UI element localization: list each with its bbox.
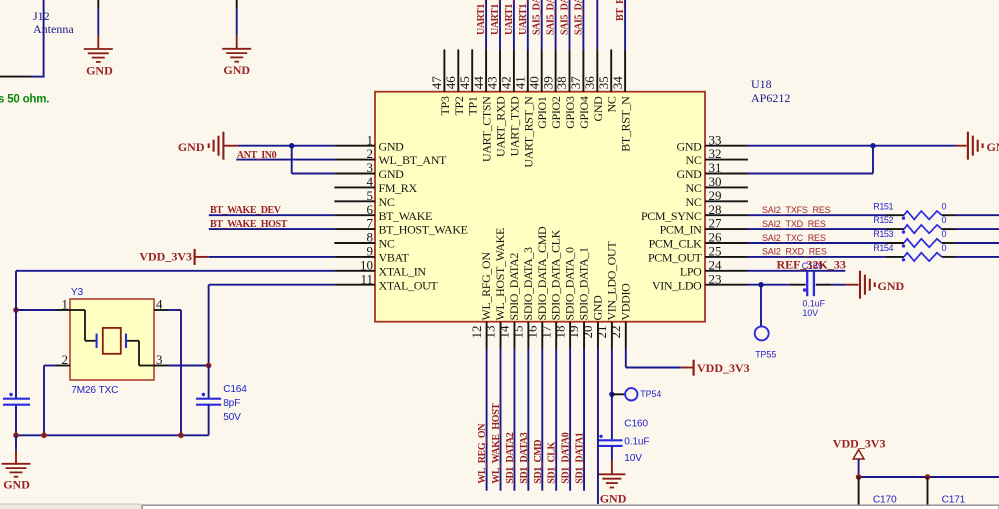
svg-text:SDIO_DATA_CLK: SDIO_DATA_CLK	[549, 229, 563, 320]
C164 polarity dot	[202, 393, 205, 396]
op-amp U18 AP6212 module body	[375, 92, 705, 322]
svg-text:7: 7	[367, 216, 374, 231]
svg-text:VDD_3V3: VDD_3V3	[139, 249, 192, 263]
resistor R153 lead right	[942, 242, 956, 244]
svg-text:GND: GND	[223, 63, 250, 77]
node junction pin 33	[870, 143, 875, 148]
pin 36 GND stub	[596, 49, 598, 92]
svg-text:UART1_RXD: UART1_RXD	[490, 0, 501, 35]
svg-text:SAI2_RXD_RES: SAI2_RXD_RES	[762, 247, 827, 257]
pin 12 WL_RFG_ON stub	[486, 322, 488, 349]
pin 46 TP2 stub	[457, 49, 459, 92]
svg-text:20: 20	[580, 326, 595, 339]
resistor R152 lead right	[942, 228, 956, 230]
svg-text:13: 13	[483, 326, 498, 339]
svg-text:50V: 50V	[223, 412, 241, 423]
svg-text:38: 38	[554, 76, 569, 89]
pin 29 NC stub	[705, 200, 748, 202]
svg-text:SAI2_TXD_RES: SAI2_TXD_RES	[762, 219, 826, 229]
ground GND top-left	[97, 35, 99, 49]
svg-text:21: 21	[594, 326, 609, 339]
bottom white panel	[142, 505, 999, 509]
wire pin 22 down	[625, 349, 627, 368]
svg-text:FM_RX: FM_RX	[379, 181, 418, 195]
svg-text:45: 45	[457, 76, 472, 89]
svg-text:GND: GND	[178, 140, 205, 154]
svg-text:GND: GND	[677, 139, 703, 153]
svg-text:R151: R151	[873, 201, 893, 211]
svg-text:GND: GND	[3, 477, 30, 491]
node junction pin1	[289, 143, 294, 148]
pin 33 GND stub	[705, 145, 748, 147]
svg-text:0: 0	[942, 201, 947, 211]
svg-text:LPO: LPO	[680, 264, 702, 278]
wire pin 20 GND	[597, 349, 599, 504]
svg-text:GND: GND	[878, 279, 905, 293]
wire R152 to edge	[956, 228, 999, 230]
pin 43 UART_RXD stub	[499, 49, 501, 92]
svg-text:PCM_CLK: PCM_CLK	[649, 237, 703, 251]
svg-text:25: 25	[709, 244, 722, 259]
svg-text:GND: GND	[677, 167, 703, 181]
svg-text:5: 5	[367, 188, 374, 203]
wire VDD rail	[859, 476, 999, 478]
power VDD_3V3 pin22 bar	[692, 360, 694, 376]
svg-text:VBAT: VBAT	[379, 251, 410, 265]
svg-text:6: 6	[367, 202, 374, 217]
resistor R153 lead left	[886, 242, 904, 244]
node VDD rail junction 1	[856, 474, 862, 480]
svg-text:VIN_LDO: VIN_LDO	[652, 278, 702, 292]
svg-text:SDIO_DATA_0: SDIO_DATA_0	[563, 247, 577, 321]
svg-text:UART1_CTS: UART1_CTS	[504, 0, 515, 35]
wire junction to pin 31	[872, 146, 874, 174]
svg-text:NC: NC	[379, 237, 395, 251]
svg-text:10: 10	[360, 257, 373, 272]
svg-text:10V: 10V	[803, 308, 819, 318]
svg-text:1: 1	[367, 132, 374, 147]
svg-text:SAI2_TXC_RES: SAI2_TXC_RES	[762, 233, 826, 243]
svg-text:0: 0	[942, 243, 947, 253]
svg-text:GPIO4: GPIO4	[577, 96, 591, 129]
svg-text:Y3: Y3	[71, 287, 84, 298]
wire pin 2 ANT_IN0	[236, 159, 334, 161]
svg-text:15: 15	[511, 326, 526, 339]
pin 37 GPIO4 stub	[582, 49, 584, 92]
svg-text:SD1_DATA0: SD1_DATA0	[561, 432, 572, 483]
resistor R151 lead right	[942, 214, 956, 216]
svg-text:SDIO_DATA_3: SDIO_DATA_3	[521, 247, 535, 321]
svg-text:C164: C164	[223, 384, 247, 395]
svg-text:37: 37	[568, 76, 583, 90]
svg-text:4: 4	[367, 174, 374, 189]
svg-text:s 50 ohm.: s 50 ohm.	[0, 94, 49, 106]
resistor R154 lead right	[942, 256, 956, 258]
wire rail to ground	[15, 435, 17, 451]
wire top pin 42 up	[513, 0, 515, 49]
capacitor C169	[806, 272, 808, 297]
svg-text:GND: GND	[86, 64, 113, 78]
pin 30 NC stub	[705, 186, 748, 188]
svg-text:SD1_DATA2: SD1_DATA2	[505, 432, 516, 483]
wire pin 22 right	[626, 367, 682, 369]
node junction TP55	[758, 282, 763, 287]
capacitor C163 (left, partial)	[3, 398, 30, 400]
wire pin 24 REF_32K_33	[748, 270, 845, 272]
svg-text:3: 3	[367, 160, 374, 175]
node rail junction 3	[178, 433, 184, 439]
wire top pin 43 up	[499, 0, 501, 49]
svg-text:0.1uF: 0.1uF	[624, 437, 649, 448]
power VDD_3V3 pin 9 bar	[194, 249, 196, 265]
svg-text:32: 32	[709, 146, 722, 161]
wire crystal pin 1	[16, 309, 56, 311]
wire pin 28 SAI2_TXFS_RES	[748, 214, 886, 216]
svg-text:8pF: 8pF	[223, 398, 240, 409]
capacitor C164	[208, 366, 210, 399]
svg-text:WL_RFG_ON: WL_RFG_ON	[479, 252, 493, 321]
pin 14 SDIO_DATA2 stub	[513, 322, 515, 349]
svg-text:BT_WAKE_HOST: BT_WAKE_HOST	[210, 219, 288, 230]
svg-text:GPIO1: GPIO1	[535, 96, 549, 129]
wire left vertical bottom	[15, 405, 17, 435]
pin 2 WL_BT_ANT stub	[334, 159, 375, 161]
pin 38 GPIO3 stub	[569, 49, 571, 92]
pin 41 UART_RST_N stub	[527, 49, 529, 92]
svg-text:BT_HOST_WAKE: BT_HOST_WAKE	[379, 223, 468, 237]
node rail junction 1	[13, 433, 19, 439]
pin 32 NC stub	[705, 159, 748, 161]
wire pin 18 SD1_DATA0	[569, 349, 571, 491]
svg-text:WL_WAKE_HOST: WL_WAKE_HOST	[491, 403, 502, 484]
svg-text:10V: 10V	[624, 453, 642, 464]
svg-text:44: 44	[471, 76, 486, 90]
resistor R151	[904, 211, 942, 219]
svg-text:SDIO_DATA_1: SDIO_DATA_1	[577, 247, 591, 321]
node rail junction 2	[41, 433, 47, 439]
wire crystal pin 3	[154, 365, 169, 367]
wire to GND top-left	[97, 0, 99, 8]
wire top pin 44 up	[485, 0, 487, 49]
pin 42 UART_TXD stub	[513, 49, 515, 92]
wire pin 7 BT_WAKE_HOST	[209, 228, 335, 230]
resistor R152 lead left	[886, 228, 904, 230]
svg-text:R152: R152	[873, 215, 893, 225]
svg-text:24: 24	[709, 257, 723, 272]
wire pin 6 BT_WAKE_DEV	[209, 214, 335, 216]
wire top pin 36 up	[596, 0, 598, 49]
svg-text:35: 35	[596, 76, 611, 89]
svg-text:R153: R153	[873, 229, 893, 239]
ground GND top-2	[236, 35, 238, 49]
svg-text:28: 28	[709, 202, 722, 217]
svg-text:29: 29	[709, 188, 722, 203]
svg-text:46: 46	[443, 76, 458, 90]
crystal symbol leads	[70, 309, 85, 311]
wire junction down	[291, 146, 293, 174]
svg-text:C160: C160	[624, 419, 648, 430]
svg-text:11: 11	[360, 271, 373, 286]
svg-text:39: 39	[540, 76, 555, 89]
test point TP55	[755, 326, 769, 340]
pin 6 BT_WAKE stub	[334, 214, 375, 216]
svg-text:BT_WAKE_DEV: BT_WAKE_DEV	[210, 205, 282, 216]
wire top pin 41 up	[527, 0, 529, 49]
wire capacitor C171 lead	[927, 477, 929, 509]
svg-text:GND: GND	[600, 491, 627, 505]
wire pin 16 SD1_CMD	[541, 349, 543, 491]
pin 39 GPIO2 stub	[555, 49, 557, 92]
svg-text:43: 43	[485, 76, 500, 89]
svg-text:GND: GND	[590, 295, 604, 321]
pin 1 GND stub	[334, 145, 375, 147]
pin 25 PCM_OUT stub	[705, 256, 748, 258]
svg-text:14: 14	[497, 325, 512, 339]
svg-text:WL_HOST_WAKE: WL_HOST_WAKE	[493, 228, 507, 320]
pin 4 FM_RX stub	[334, 186, 375, 188]
resistor R151 lead left	[886, 214, 904, 216]
node junction left vertical pin1	[13, 307, 19, 313]
wire top pin 38 up	[569, 0, 571, 49]
pin 7 BT_HOST_WAKE stub	[334, 228, 375, 230]
svg-text:19: 19	[566, 326, 581, 339]
node junction pin3 cap	[206, 363, 212, 369]
svg-text:7M26 TXC: 7M26 TXC	[71, 385, 118, 396]
svg-text:41: 41	[513, 76, 528, 89]
svg-text:UART_CTSN: UART_CTSN	[480, 96, 494, 162]
svg-text:BT_WAKE: BT_WAKE	[379, 209, 433, 223]
crystal element	[103, 328, 121, 354]
svg-text:SAI2_TXFS_RES: SAI2_TXFS_RES	[762, 205, 831, 215]
pin 18 SDIO_DATA_0 stub	[569, 322, 571, 349]
wire crystal pin 2	[56, 365, 70, 367]
pin 9 VBAT stub	[334, 256, 375, 258]
svg-text:SAI5_DAT0: SAI5_DAT0	[532, 0, 543, 35]
svg-text:REF_32K_33: REF_32K_33	[777, 258, 846, 272]
wire capacitor C170 lead	[858, 477, 860, 509]
pin 40 GPIO1 stub	[541, 49, 543, 92]
resistor R153	[904, 239, 942, 247]
svg-text:GND: GND	[591, 96, 605, 122]
svg-text:R154: R154	[873, 243, 893, 253]
svg-text:VDDIO: VDDIO	[618, 283, 632, 321]
svg-text:SDIO_DATA_CMD: SDIO_DATA_CMD	[535, 226, 549, 321]
svg-text:SD1_CMD: SD1_CMD	[533, 440, 544, 484]
svg-text:34: 34	[610, 76, 625, 90]
pin 27 PCM_IN stub	[705, 228, 748, 230]
node VDD rail junction 2	[925, 474, 931, 480]
R152 polarity dot	[902, 230, 905, 233]
pin 8 NC stub	[334, 242, 375, 244]
ground GND below C160	[598, 473, 625, 475]
R151 polarity dot	[902, 216, 905, 219]
svg-text:2: 2	[367, 146, 374, 161]
wire R151 to edge	[956, 214, 999, 216]
svg-text:XTAL_IN: XTAL_IN	[379, 264, 427, 278]
svg-text:J12: J12	[33, 9, 50, 23]
pin 22 VDDIO stub	[625, 322, 627, 349]
svg-text:C171: C171	[942, 495, 966, 506]
svg-text:BT_RST_N: BT_RST_N	[619, 96, 633, 152]
test point TP54	[625, 388, 637, 400]
node junction TP54	[609, 392, 614, 397]
ground GND at pin 1 (sideways)	[222, 132, 224, 160]
svg-text:C170: C170	[873, 495, 897, 506]
svg-text:SAI5_DAT3: SAI5_DAT3	[573, 0, 584, 35]
wire R153 to edge	[956, 242, 999, 244]
svg-text:UART_RST_N: UART_RST_N	[521, 96, 535, 168]
svg-text:NC: NC	[686, 153, 702, 167]
wire J12 to top	[31, 76, 44, 78]
svg-text:TP55: TP55	[755, 350, 776, 360]
svg-text:8: 8	[367, 230, 374, 245]
pin 5 NC stub	[334, 200, 375, 202]
svg-text:0.1uF: 0.1uF	[803, 298, 826, 308]
svg-text:AP6212: AP6212	[751, 91, 790, 105]
wire pin 14 SD1_DATA2	[513, 349, 515, 491]
power VDD_3V3 triangle	[853, 450, 864, 459]
pin 16 SDIO_DATA_CMD stub	[541, 322, 543, 349]
svg-text:NC: NC	[379, 195, 395, 209]
wire pin 13 WL_WAKE_HOST	[500, 349, 502, 491]
svg-text:42: 42	[499, 76, 514, 89]
pin 31 GND stub	[705, 173, 748, 175]
wire top pin 34 up	[624, 0, 626, 49]
svg-text:SD1_DATA1: SD1_DATA1	[575, 432, 586, 483]
svg-text:PCM_SYNC: PCM_SYNC	[641, 209, 702, 223]
crystal Y3 body	[70, 299, 154, 380]
pin 24 LPO stub	[705, 270, 748, 272]
svg-text:SDIO_DATA2: SDIO_DATA2	[507, 253, 521, 321]
ground GND at C169	[859, 271, 861, 299]
svg-text:UART_TXD: UART_TXD	[507, 96, 521, 156]
svg-text:VDD_3V3: VDD_3V3	[833, 437, 886, 451]
R153 polarity dot	[902, 244, 905, 247]
pin 13 WL_HOST_WAKE stub	[500, 322, 502, 349]
svg-text:UART1_RTS: UART1_RTS	[518, 0, 529, 35]
wire pin 27 SAI2_TXD_RES	[748, 228, 886, 230]
pin 28 PCM_SYNC stub	[705, 214, 748, 216]
svg-text:WL_REG_ON: WL_REG_ON	[477, 423, 488, 484]
wire pin 23 segment 3	[816, 284, 831, 286]
svg-text:0: 0	[942, 215, 947, 225]
svg-text:Antenna: Antenna	[33, 22, 74, 36]
pin 23 VIN_LDO stub	[705, 284, 748, 286]
svg-text:TP2: TP2	[452, 96, 466, 115]
wire C160 down	[611, 446, 613, 460]
svg-text:UART_RXD: UART_RXD	[494, 96, 508, 157]
pin 11 XTAL_OUT stub	[334, 284, 375, 286]
svg-text:23: 23	[709, 271, 722, 286]
svg-text:TP3: TP3	[438, 96, 452, 115]
svg-text:NC: NC	[605, 96, 619, 112]
svg-text:31: 31	[709, 160, 722, 175]
wire pin 33	[748, 145, 956, 147]
pin 47 TP3 stub	[443, 49, 445, 92]
svg-text:0: 0	[942, 229, 947, 239]
pin 21 VIN_LDO_OUT stub	[611, 322, 613, 349]
C163 polarity dot	[9, 393, 12, 396]
R154 polarity dot	[902, 258, 905, 261]
wire crystal pin 4	[154, 309, 169, 311]
wire top pin 39 up	[555, 0, 557, 49]
connector J12 wire stub	[0, 76, 31, 78]
svg-text:NC: NC	[686, 181, 702, 195]
pin 15 SDIO_DATA_3 stub	[527, 322, 529, 349]
resistor R154	[904, 253, 942, 261]
svg-text:GND: GND	[379, 139, 405, 153]
wire top pin 37 up	[582, 0, 584, 49]
wire pin 3	[292, 173, 335, 175]
pin 10 XTAL_IN stub	[334, 270, 375, 272]
resistor R152	[904, 225, 942, 233]
svg-text:GND: GND	[379, 167, 405, 181]
svg-text:NC: NC	[686, 195, 702, 209]
svg-text:ANT_IN0: ANT_IN0	[237, 150, 277, 161]
wire pin 10 XTAL_IN	[16, 270, 334, 272]
svg-text:WL_BT_ANT: WL_BT_ANT	[379, 153, 448, 167]
svg-text:BT_REG_ON: BT_REG_ON	[615, 0, 626, 21]
svg-text:PCM_IN: PCM_IN	[660, 223, 703, 237]
svg-text:40: 40	[526, 76, 541, 89]
ground GND right edge	[967, 132, 969, 160]
ground GND bottom-left	[15, 451, 17, 464]
svg-text:36: 36	[582, 76, 597, 90]
pin 3 GND stub	[334, 173, 375, 175]
pin 45 TP1 stub	[471, 49, 473, 92]
wire pin 19 SD1_DATA1	[583, 349, 585, 491]
svg-text:SD1_DATA3: SD1_DATA3	[519, 432, 530, 483]
bottom grey strip	[0, 504, 142, 509]
wire VDD triangle down	[858, 459, 860, 477]
svg-text:VDD_3V3: VDD_3V3	[697, 361, 750, 375]
wire pin 26 SAI2_TXC_RES	[748, 242, 886, 244]
svg-text:XTAL_OUT: XTAL_OUT	[379, 278, 439, 292]
svg-text:47: 47	[429, 76, 444, 90]
resistor R154 lead left	[886, 256, 904, 258]
svg-text:GPIO2: GPIO2	[549, 96, 563, 129]
wire R154 to edge	[956, 256, 999, 258]
svg-text:GND: GND	[987, 140, 999, 154]
svg-text:SAI5_DAT2: SAI5_DAT2	[560, 0, 571, 35]
svg-text:SAI5_DAT1: SAI5_DAT1	[546, 0, 557, 35]
wire ground rail	[16, 434, 209, 436]
wire pin 23 segment 2	[790, 284, 806, 286]
svg-text:30: 30	[709, 174, 722, 189]
wire top pin 40 up	[541, 0, 543, 49]
svg-text:9: 9	[367, 244, 374, 259]
pin 35 NC stub	[610, 49, 612, 92]
svg-text:16: 16	[524, 325, 539, 339]
svg-text:TP54: TP54	[640, 389, 661, 399]
svg-text:22: 22	[608, 326, 623, 339]
svg-text:TP1: TP1	[466, 96, 480, 115]
svg-text:VIN_LDO_OUT: VIN_LDO_OUT	[604, 241, 618, 321]
pin 20 GND stub	[597, 322, 599, 349]
pin 17 SDIO_DATA_CLK stub	[555, 322, 557, 349]
svg-text:17: 17	[538, 325, 553, 339]
wire VDD_3V3 to pin 9	[195, 256, 209, 258]
svg-text:33: 33	[709, 132, 722, 147]
pin 44 UART_CTSN stub	[485, 49, 487, 92]
svg-text:PCM_OUT: PCM_OUT	[648, 251, 703, 265]
svg-text:12: 12	[469, 326, 484, 339]
capacitor C160	[598, 439, 623, 441]
wire pin 11 XTAL_OUT	[209, 284, 335, 286]
wire to GND top-2	[236, 0, 238, 9]
crystal plates	[96, 334, 98, 348]
wire pin 17 SD1_CLK	[555, 349, 557, 491]
